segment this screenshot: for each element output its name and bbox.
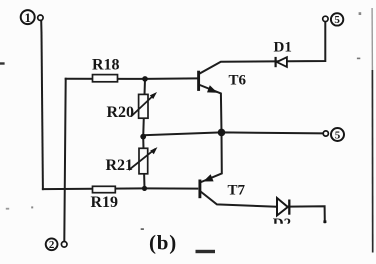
svg-text:1: 1	[24, 10, 31, 25]
svg-text:T6: T6	[229, 73, 247, 89]
svg-text:R21: R21	[106, 157, 134, 174]
svg-text:R18: R18	[92, 57, 120, 74]
svg-text:D1: D1	[274, 40, 292, 56]
svg-text:D2: D2	[273, 216, 291, 232]
svg-text:2: 2	[49, 239, 55, 251]
svg-text:R19: R19	[91, 194, 119, 211]
svg-text:5: 5	[335, 129, 341, 141]
svg-text:T7: T7	[228, 183, 246, 199]
svg-text:5: 5	[334, 14, 340, 26]
svg-text:(b): (b)	[149, 231, 177, 255]
svg-text:R20: R20	[107, 104, 135, 121]
